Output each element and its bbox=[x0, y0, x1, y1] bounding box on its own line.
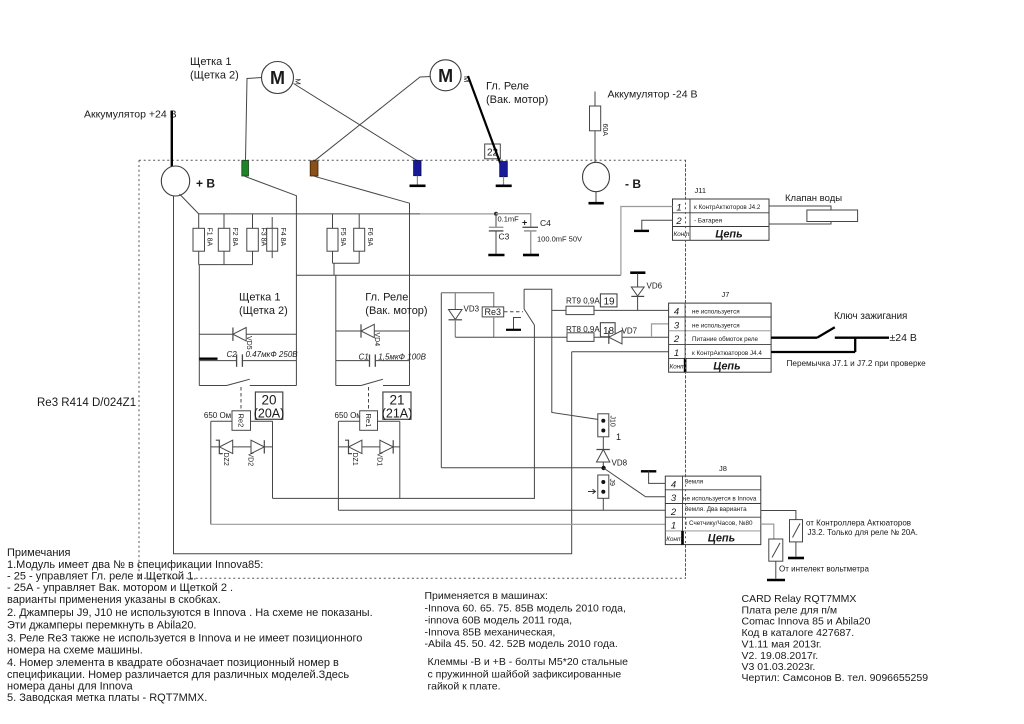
wire to J8 pin1 (grey) bbox=[211, 523, 666, 525]
svg-text:RT9 0,9A: RT9 0,9A bbox=[566, 297, 600, 306]
connector brown (brush 2) bbox=[310, 161, 318, 176]
svg-text:От интелект вольтметра: От интелект вольтметра bbox=[779, 565, 869, 574]
diode VD1 bbox=[380, 440, 393, 453]
svg-text:Аккумулятор -24 В: Аккумулятор -24 В bbox=[608, 89, 698, 101]
svg-text:Цепь: Цепь bbox=[713, 361, 740, 373]
pin number 22 box bbox=[485, 144, 501, 159]
wire brown connector to box2 right bbox=[314, 176, 409, 214]
capacitor C3 bbox=[488, 212, 519, 255]
svg-text:1,5мкФ 100В: 1,5мкФ 100В bbox=[378, 353, 426, 362]
svg-text:650 Ом: 650 Ом bbox=[335, 411, 362, 420]
svg-text:C3: C3 bbox=[499, 232, 510, 242]
svg-text:C2: C2 bbox=[227, 350, 238, 359]
ground at Re3 contact bbox=[506, 318, 521, 330]
dashed link contact2 to Re1 bbox=[368, 387, 370, 411]
svg-text:V1.11 мая 2013г.: V1.11 мая 2013г. bbox=[742, 638, 822, 650]
zener DZ2 bbox=[220, 440, 233, 453]
fuse F4 (not connected) bbox=[267, 217, 278, 258]
svg-text:Ключ зажигания: Ключ зажигания bbox=[834, 311, 907, 322]
svg-text:спецификации. Номер различаетс: спецификации. Номер различается для разл… bbox=[7, 669, 349, 681]
svg-text:DZ1: DZ1 bbox=[351, 453, 358, 466]
svg-text:2: 2 bbox=[675, 216, 682, 227]
svg-text:Re3 R414 D/024Z1: Re3 R414 D/024Z1 bbox=[37, 397, 136, 409]
relay Re3 contact bbox=[524, 289, 552, 337]
svg-text:не используется: не используется bbox=[692, 309, 740, 316]
capacitor C1 bbox=[336, 353, 427, 367]
svg-text:±24 В: ±24 В bbox=[890, 332, 917, 344]
wire J7 pin2 line (relay coil supply) bbox=[455, 336, 668, 338]
diode VD5 bbox=[199, 328, 296, 350]
svg-text:- 25 - управляет Гл. реле и Ще: - 25 - управляет Гл. реле и Щеткой 1. bbox=[7, 571, 196, 583]
svg-text:VD6: VD6 bbox=[647, 282, 663, 291]
svg-text:3. Реле Re3 также не используе: 3. Реле Re3 также не используется в Inno… bbox=[7, 632, 362, 644]
svg-text:Клапан воды: Клапан воды bbox=[785, 193, 842, 204]
connector green (brush 1) bbox=[242, 161, 249, 177]
svg-text:CARD Relay RQT7MMX: CARD Relay RQT7MMX bbox=[742, 593, 857, 605]
power bar +24 over VD6 bbox=[630, 271, 645, 274]
wire Re3 coil loop top bbox=[441, 293, 493, 307]
svg-text:3: 3 bbox=[671, 493, 677, 504]
spec number box 21 bbox=[383, 392, 411, 419]
svg-text:Re1: Re1 bbox=[364, 414, 373, 428]
wire J11 pin2 ground bbox=[642, 220, 673, 230]
svg-text:J11: J11 bbox=[695, 186, 707, 195]
dashed link Re3 to contact bbox=[504, 311, 523, 313]
svg-text:не используется в Innova: не используется в Innova bbox=[683, 495, 757, 502]
svg-text:к Счетчику/Часов, №80: к Счетчику/Часов, №80 bbox=[685, 520, 753, 527]
svg-text:Конт: Конт bbox=[666, 536, 682, 543]
svg-text:F5 9A: F5 9A bbox=[339, 228, 346, 247]
wire M1 to green connector bbox=[246, 78, 263, 161]
wires Re2 row bbox=[211, 421, 273, 524]
svg-text:M: M bbox=[294, 79, 303, 85]
svg-text:VD4: VD4 bbox=[373, 333, 380, 347]
wire jog to J7 pin3 bbox=[652, 324, 669, 337]
svg-text:(20A): (20A) bbox=[254, 407, 285, 421]
wire to J8 pin2 bbox=[338, 509, 665, 511]
jumper J9 bbox=[588, 475, 615, 498]
svg-text:1: 1 bbox=[616, 432, 621, 442]
svg-text:Конт: Конт bbox=[674, 231, 690, 238]
svg-text:-Innova 60. 65. 75. 85В модель: -Innova 60. 65. 75. 85В модель 2010 года… bbox=[425, 603, 626, 615]
svg-text:(Щетка 2): (Щетка 2) bbox=[190, 70, 239, 82]
svg-text:Примечания: Примечания bbox=[7, 547, 71, 559]
terminal -B circle bbox=[583, 162, 610, 191]
node VD8 junction bbox=[601, 466, 605, 470]
svg-text:Цепь: Цепь bbox=[715, 229, 742, 241]
terminal +B circle bbox=[161, 166, 189, 196]
svg-text:Питание обмоток реле: Питание обмоток реле bbox=[692, 335, 759, 343]
fuse 60A bbox=[590, 106, 601, 131]
wire green connector to box1 right bbox=[245, 176, 297, 214]
wire J7 pin4 line bbox=[552, 309, 669, 311]
wire M2 to pin22 blue connector (thick) bbox=[468, 76, 504, 172]
wire relay outputs bus bbox=[273, 497, 536, 499]
svg-text:19: 19 bbox=[604, 297, 616, 308]
svg-text:Земля. Два варианта: Земля. Два варианта bbox=[685, 506, 748, 513]
svg-text:(Вак. мотор): (Вак. мотор) bbox=[365, 305, 427, 317]
fuse rail +24 bbox=[198, 213, 420, 215]
svg-text:VD2: VD2 bbox=[247, 453, 254, 467]
svg-text:Re3: Re3 bbox=[485, 307, 502, 317]
svg-text:1: 1 bbox=[671, 521, 676, 532]
svg-text:Цепь: Цепь bbox=[708, 533, 735, 545]
svg-text:V2. 19.08.2017г.: V2. 19.08.2017г. bbox=[742, 650, 819, 662]
svg-text:-Abila 45. 50. 42. 52В модель: -Abila 45. 50. 42. 52В модель 2010 года. bbox=[425, 638, 618, 650]
svg-text:+ В: + В bbox=[196, 177, 215, 191]
capacitor C4 bbox=[496, 214, 582, 255]
svg-text:J3.2. Только для реле № 20А.: J3.2. Только для реле № 20А. bbox=[808, 528, 918, 537]
svg-text:3: 3 bbox=[674, 320, 680, 331]
relay contact box1 bbox=[199, 379, 296, 385]
connector J11 table bbox=[673, 186, 770, 241]
diode VD3 bbox=[449, 293, 480, 338]
svg-text:RT8 0,9A: RT8 0,9A bbox=[566, 325, 600, 334]
wire J9 to J8 pin2 line bbox=[602, 498, 604, 510]
wire Re3 common down to J10 bbox=[552, 337, 599, 419]
svg-text:C4: C4 bbox=[540, 218, 551, 228]
svg-text:номера на схеме машины.: номера на схеме машины. bbox=[7, 645, 143, 657]
svg-text:Чертил: Самсонов В. тел. 90966: Чертил: Самсонов В. тел. 9096655259 bbox=[742, 672, 929, 684]
wire J8 pin2 to switch A bbox=[761, 511, 796, 520]
svg-text:- 25А - управляет Вак. мотором: - 25А - управляет Вак. мотором и Щеткой … bbox=[7, 582, 233, 594]
svg-text:- Батарея: - Батарея bbox=[694, 218, 722, 225]
svg-text:Применяется в машинах:: Применяется в машинах: bbox=[425, 590, 548, 602]
svg-text:F3 8A: F3 8A bbox=[259, 228, 266, 247]
board outline dotted border bbox=[139, 160, 686, 578]
wire J7 pin1 feed bbox=[572, 351, 669, 353]
resistor RT8 bbox=[567, 333, 594, 342]
water valve body bbox=[807, 210, 858, 222]
svg-text:Гл. Реле: Гл. Реле bbox=[486, 81, 529, 93]
svg-text:к КонтрАктюаторов J4.4: к КонтрАктюаторов J4.4 bbox=[692, 350, 762, 357]
svg-text:- В: - В bbox=[625, 177, 641, 191]
wire Re3 coil line down to VD8 junction bbox=[441, 467, 603, 469]
svg-text:0.47мкФ 250В: 0.47мкФ 250В bbox=[246, 350, 299, 359]
application text block bbox=[425, 590, 629, 693]
svg-text:Земля: Земля bbox=[685, 479, 704, 486]
wire +B to fuse rail (diagonal) bbox=[180, 194, 199, 214]
wires to water valve bbox=[769, 206, 831, 224]
svg-text:20: 20 bbox=[261, 393, 276, 408]
svg-text:(Вак. мотор): (Вак. мотор) bbox=[486, 94, 548, 106]
svg-text:0.1mF: 0.1mF bbox=[498, 215, 520, 224]
diode VD7 bbox=[609, 331, 622, 344]
svg-text:1: 1 bbox=[676, 203, 681, 214]
svg-text:100.0mF 50V: 100.0mF 50V bbox=[537, 235, 582, 244]
svg-text:F4 8A: F4 8A bbox=[279, 228, 286, 247]
wire battery + feed (thick) bbox=[171, 111, 173, 167]
wire fuse to -B circle bbox=[594, 131, 596, 164]
svg-text:-innova 60В модель 2011 года,: -innova 60В модель 2011 года, bbox=[425, 614, 573, 626]
switch A (actuator controller) bbox=[790, 520, 803, 542]
svg-text:F2 8A: F2 8A bbox=[231, 228, 238, 247]
svg-text:2. Джамперы J9, J10 не использ: 2. Джамперы J9, J10 не используются в In… bbox=[7, 607, 373, 619]
connector blue 1 (vac motor) bbox=[414, 161, 421, 176]
svg-text:M: M bbox=[270, 68, 285, 88]
svg-text:VD8: VD8 bbox=[612, 459, 628, 468]
svg-text:Конт: Конт bbox=[670, 364, 686, 371]
battery +24V label bbox=[84, 109, 177, 121]
connector J7 table bbox=[669, 290, 772, 373]
svg-text:Клеммы -В и +В - болты М5*20 с: Клеммы -В и +В - болты М5*20 стальные bbox=[428, 656, 629, 668]
relay coil Re1 bbox=[360, 411, 378, 431]
fuse F6 bbox=[354, 214, 365, 263]
svg-text:J9: J9 bbox=[608, 479, 615, 487]
svg-text:Щетка 1: Щетка 1 bbox=[190, 56, 231, 68]
diode VD4 bbox=[336, 324, 410, 346]
svg-text:-Innova 85В механическая,: -Innova 85В механическая, bbox=[425, 626, 556, 638]
svg-text:4. Номер элемента в квадрате о: 4. Номер элемента в квадрате обозначает … bbox=[7, 657, 339, 669]
jumper J10 bbox=[598, 414, 621, 442]
svg-text:номера даны для Innova: номера даны для Innova bbox=[7, 681, 133, 693]
connector blue 2 (main relay) bbox=[500, 162, 508, 177]
wire +24 long rail to J11/VD6 bbox=[296, 274, 621, 276]
fuse F5 bbox=[327, 214, 338, 263]
fuse F2 bbox=[218, 214, 230, 265]
relay coil Re3 box bbox=[482, 307, 504, 317]
wire M2 to brown connector (crossing) bbox=[315, 77, 432, 161]
svg-text:Щетка 1: Щетка 1 bbox=[239, 292, 280, 304]
svg-text:Аккумулятор +24 В: Аккумулятор +24 В bbox=[84, 109, 177, 121]
svg-text:5. Заводская метка платы - RQ: 5. Заводская метка платы - RQT7MMX. bbox=[7, 692, 207, 704]
zener DZ1 bbox=[349, 440, 362, 453]
diode VD6 bbox=[631, 274, 662, 311]
notes text block bbox=[7, 547, 373, 704]
svg-text:J7: J7 bbox=[722, 290, 730, 299]
motor M1 bbox=[262, 62, 294, 94]
wire J8 pin1 to switch B bbox=[761, 524, 774, 539]
svg-text:Re2: Re2 bbox=[237, 414, 246, 428]
switch B (voltmeter) bbox=[769, 539, 783, 561]
ground blue connector 2 bbox=[503, 177, 505, 185]
wire +B feed down bbox=[174, 196, 572, 554]
spec number box 19 bbox=[600, 294, 617, 307]
relay contact box2 bbox=[336, 379, 410, 385]
svg-text:4: 4 bbox=[671, 480, 676, 491]
board outline dotted vertical over tables bbox=[685, 160, 687, 578]
diode VD2 bbox=[251, 440, 264, 453]
svg-text:2: 2 bbox=[670, 507, 677, 518]
svg-text:+: + bbox=[522, 218, 527, 228]
dashed link contact1 to Re2 bbox=[240, 387, 242, 411]
svg-text:1.Модуль имеет два № в специфи: 1.Модуль имеет два № в спецификации Inno… bbox=[7, 559, 263, 571]
spec number box 18 bbox=[600, 323, 615, 337]
svg-text:2: 2 bbox=[673, 334, 680, 345]
diode VD8 bbox=[597, 437, 628, 468]
box1 brush relay outline bbox=[199, 214, 296, 386]
fuse F1 bbox=[193, 214, 205, 265]
svg-text:к КонтрАктюторов J4.2: к КонтрАктюторов J4.2 bbox=[694, 204, 761, 211]
capacitor C2 bbox=[199, 350, 298, 367]
svg-text:Перемычка J7.1 и J7.2 при пров: Перемычка J7.1 и J7.2 при проверке bbox=[787, 359, 927, 368]
ground blue connector 1 bbox=[416, 176, 418, 185]
svg-text:J10: J10 bbox=[609, 416, 616, 427]
relay coil Re2 bbox=[232, 411, 251, 431]
wires Re1 row bbox=[338, 421, 399, 510]
fuse group1 bottom rail bbox=[199, 264, 253, 266]
svg-text:F6 9A: F6 9A bbox=[366, 228, 373, 247]
wire battery minus top bbox=[594, 92, 596, 107]
wire M1 to blue connector 1 (crossing) bbox=[294, 84, 418, 161]
svg-text:(21A): (21A) bbox=[382, 407, 413, 421]
svg-text:VD5: VD5 bbox=[245, 336, 252, 350]
wire VD8 junction to J8 pin3 bbox=[604, 468, 666, 497]
svg-text:с пружинной шайбой зафиксирова: с пружинной шайбой зафиксированные bbox=[428, 668, 622, 680]
svg-text:Comac Innova 85 и Abila20: Comac Innova 85 и Abila20 bbox=[742, 615, 871, 627]
svg-text:VD7: VD7 bbox=[622, 327, 638, 336]
svg-text:650 Ом: 650 Ом bbox=[204, 411, 231, 420]
box2 main relay outline bbox=[336, 214, 410, 386]
svg-text:C1: C1 bbox=[359, 353, 369, 362]
svg-text:Гл. Реле: Гл. Реле bbox=[365, 292, 408, 304]
fuse F3 bbox=[247, 214, 258, 265]
svg-text:M: M bbox=[438, 66, 453, 86]
ground J8 pin4 bbox=[641, 471, 665, 483]
svg-text:21: 21 bbox=[389, 393, 404, 408]
svg-text:от Контроллера Актюаторов: от Контроллера Актюаторов bbox=[806, 519, 911, 528]
ignition switch wires (thick) bbox=[771, 327, 889, 352]
svg-text:4: 4 bbox=[674, 307, 679, 318]
svg-text:гайкой к плате.: гайкой к плате. bbox=[428, 681, 501, 693]
svg-text:60A: 60A bbox=[601, 124, 608, 137]
svg-text:Код в каталоге 427687.: Код в каталоге 427687. bbox=[742, 627, 855, 639]
svg-text:J8: J8 bbox=[719, 464, 727, 473]
spec number box 20 bbox=[255, 392, 282, 419]
svg-text:F1 8A: F1 8A bbox=[206, 228, 213, 247]
svg-text:(Щетка 2): (Щетка 2) bbox=[239, 305, 288, 317]
svg-text:Эти джамперы перемкнуть в Abil: Эти джамперы перемкнуть в Abila20. bbox=[7, 619, 197, 631]
connector J8 table bbox=[665, 464, 761, 545]
svg-text:DZ2: DZ2 bbox=[222, 453, 229, 466]
motor M2 bbox=[430, 60, 461, 91]
svg-text:варианты применения указаны в: варианты применения указаны в скобках. bbox=[7, 594, 221, 606]
ground -B bbox=[595, 192, 597, 202]
resistor RT9 bbox=[566, 306, 594, 314]
svg-text:VD1: VD1 bbox=[376, 453, 383, 467]
svg-text:VD3: VD3 bbox=[464, 305, 480, 314]
wire J11 pin1 to +24 rail bbox=[621, 207, 673, 276]
svg-text:1: 1 bbox=[674, 348, 679, 359]
svg-text:не используется: не используется bbox=[692, 322, 740, 329]
fuse group2 bottom rail bbox=[333, 262, 360, 264]
wire Re3 coil left branch bbox=[440, 293, 442, 468]
title text block bbox=[742, 593, 929, 684]
wire Re3 contact output down bbox=[533, 337, 535, 498]
